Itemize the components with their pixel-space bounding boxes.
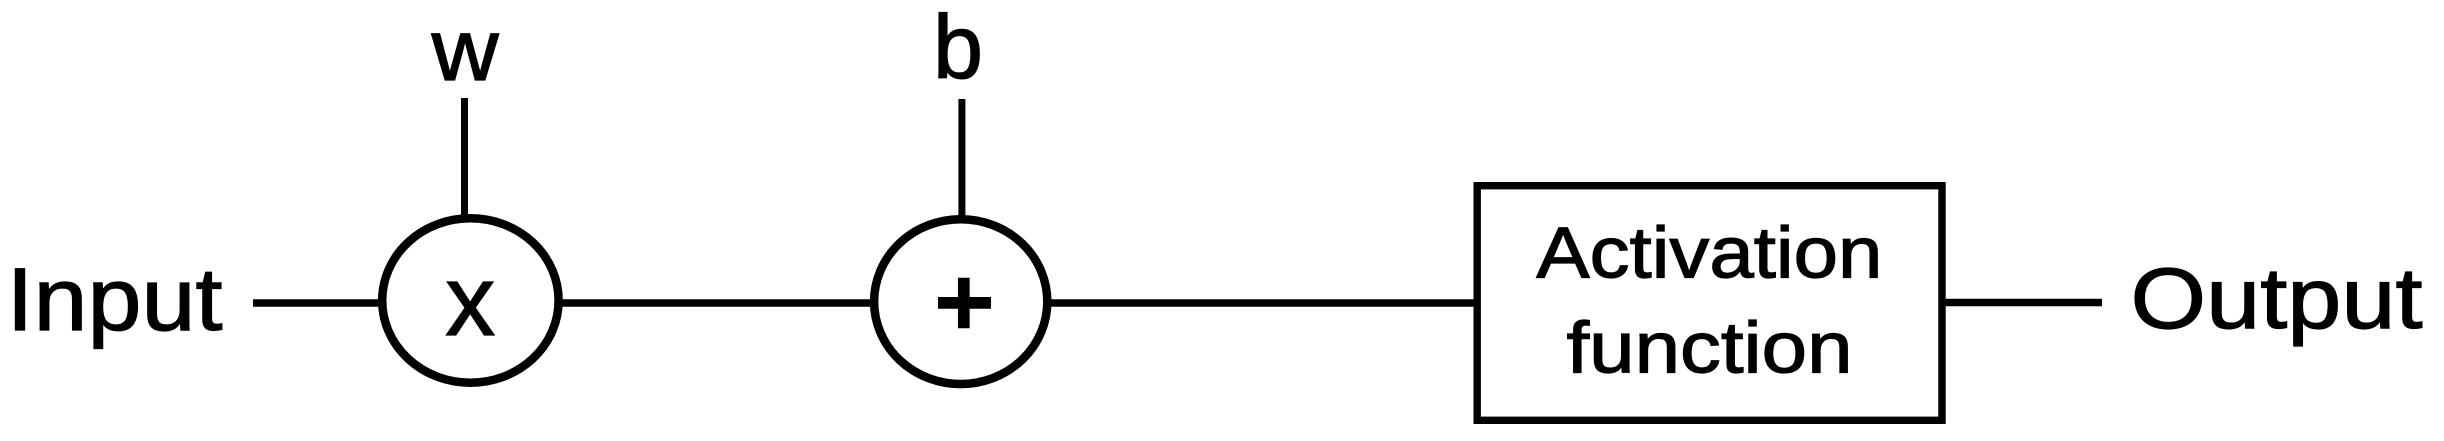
wire b to adder	[958, 99, 965, 230]
plus sign horizontal bar	[938, 297, 991, 309]
adder circle	[874, 219, 1047, 384]
wire multiplier to adder	[555, 299, 878, 306]
activation function box	[1477, 186, 1942, 421]
multiplier circle	[382, 218, 558, 382]
svg-text:function: function	[1567, 309, 1853, 389]
svg-text:x: x	[445, 245, 495, 357]
svg-text:Output: Output	[2131, 251, 2423, 347]
svg-text:b: b	[933, 0, 983, 98]
plus sign vertical bar	[958, 278, 970, 329]
svg-text:Activation: Activation	[1536, 214, 1882, 294]
wire w to multiplier	[461, 98, 468, 230]
svg-text:w: w	[431, 2, 500, 99]
wire Input to multiplier	[253, 299, 385, 306]
svg-text:Input: Input	[7, 249, 223, 349]
wire adder to activation box	[1045, 299, 1477, 306]
wire activation box to Output	[1943, 299, 2102, 306]
